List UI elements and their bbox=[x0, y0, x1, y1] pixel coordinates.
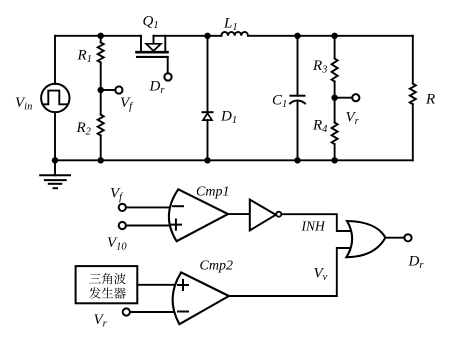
svg-text:Vr: Vr bbox=[94, 312, 108, 330]
svg-text:V10: V10 bbox=[107, 235, 127, 253]
terminal Vr bbox=[352, 94, 359, 101]
svg-text:Vf: Vf bbox=[110, 186, 124, 204]
svg-text:Cmp2: Cmp2 bbox=[200, 259, 233, 274]
wire V10 to Cmp1 bbox=[126, 225, 171, 227]
wire Cmp1 to inverter bbox=[228, 213, 250, 215]
svg-text:INH: INH bbox=[301, 219, 327, 234]
terminal V10 bbox=[119, 222, 126, 229]
resistor R (load) bbox=[410, 36, 416, 161]
wire: bottom rail bbox=[55, 159, 413, 161]
svg-text:R3: R3 bbox=[312, 58, 327, 76]
node junction (334.6,160.3) bbox=[331, 157, 337, 163]
svg-text:Cmp1: Cmp1 bbox=[196, 185, 229, 200]
node junction (55,160.3) bbox=[52, 157, 58, 163]
node junction (207.5,35.8) bbox=[204, 33, 210, 39]
wire: top rail L1 to right corner bbox=[248, 35, 413, 37]
svg-text:R2: R2 bbox=[76, 120, 92, 138]
svg-text:Vf: Vf bbox=[120, 95, 134, 113]
resistor R1 bbox=[98, 36, 104, 90]
wire Cmp2 output Vv to OR gate lower input bbox=[229, 248, 352, 296]
node junction (100.7,35.8) bbox=[98, 33, 104, 39]
resistor R3 bbox=[332, 36, 338, 98]
svg-text:Vr: Vr bbox=[346, 110, 360, 128]
node junction (100.7,160.3) bbox=[98, 157, 104, 163]
OR gate bbox=[346, 221, 385, 257]
node junction (297.5,35.8) bbox=[294, 33, 300, 39]
op-amp Cmp1 bbox=[169, 189, 228, 241]
terminal Vf (comparator input) bbox=[119, 204, 126, 211]
svg-text:L1: L1 bbox=[223, 16, 238, 34]
wire: top rail right segment Q1 source to L1 bbox=[154, 35, 222, 37]
label 发生器 bbox=[89, 287, 126, 299]
diode D1 bbox=[203, 36, 213, 161]
ground bbox=[40, 160, 70, 188]
terminal Vf bbox=[115, 86, 122, 93]
svg-text:R4: R4 bbox=[312, 118, 328, 136]
box triangle-wave generator bbox=[76, 266, 138, 303]
inductor L1 bbox=[221, 32, 248, 36]
resistor R4 bbox=[332, 98, 338, 161]
source Vin bbox=[41, 36, 69, 161]
node junction (297.5,160.3) bbox=[294, 157, 300, 163]
svg-text:Dr: Dr bbox=[149, 79, 166, 97]
transistor Q1 (MOSFET) bbox=[137, 36, 168, 73]
svg-text:Vv: Vv bbox=[314, 266, 328, 284]
node Vr tap wire bbox=[335, 97, 351, 99]
node junction (100.7,90) bbox=[98, 87, 104, 93]
node Vf tap wire bbox=[101, 89, 115, 91]
resistor R2 bbox=[98, 90, 104, 160]
wire: top rail left segment Vin to Q1 drain bbox=[55, 35, 141, 37]
svg-text:C1: C1 bbox=[272, 93, 287, 111]
wire box to Cmp2 + input bbox=[137, 284, 176, 286]
inverter U1 bbox=[250, 200, 281, 231]
svg-text:Dr: Dr bbox=[408, 254, 425, 272]
label 三角波 bbox=[89, 273, 125, 284]
node junction (207.5,160.3) bbox=[204, 157, 210, 163]
wire Vr to Cmp2 - input bbox=[130, 311, 177, 313]
capacitor C1 bbox=[290, 36, 305, 161]
wire INH (inverter to OR gate upper input) bbox=[282, 214, 352, 231]
op-amp Cmp2 bbox=[173, 272, 229, 324]
terminal Vr (comparator input) bbox=[123, 308, 130, 315]
terminal Dr (output) bbox=[404, 234, 411, 241]
terminal Dr (gate) bbox=[164, 73, 171, 80]
svg-text:Q1: Q1 bbox=[143, 14, 159, 32]
svg-text:R: R bbox=[425, 92, 435, 108]
node junction (334.6,35.8) bbox=[331, 33, 337, 39]
node junction (334.6,97.7) bbox=[331, 95, 337, 101]
svg-text:Vin: Vin bbox=[15, 95, 32, 113]
wire Vf to Cmp1 bbox=[126, 206, 172, 208]
wire OR output bbox=[385, 237, 404, 239]
svg-text:R1: R1 bbox=[77, 48, 92, 66]
svg-text:D1: D1 bbox=[220, 109, 237, 127]
